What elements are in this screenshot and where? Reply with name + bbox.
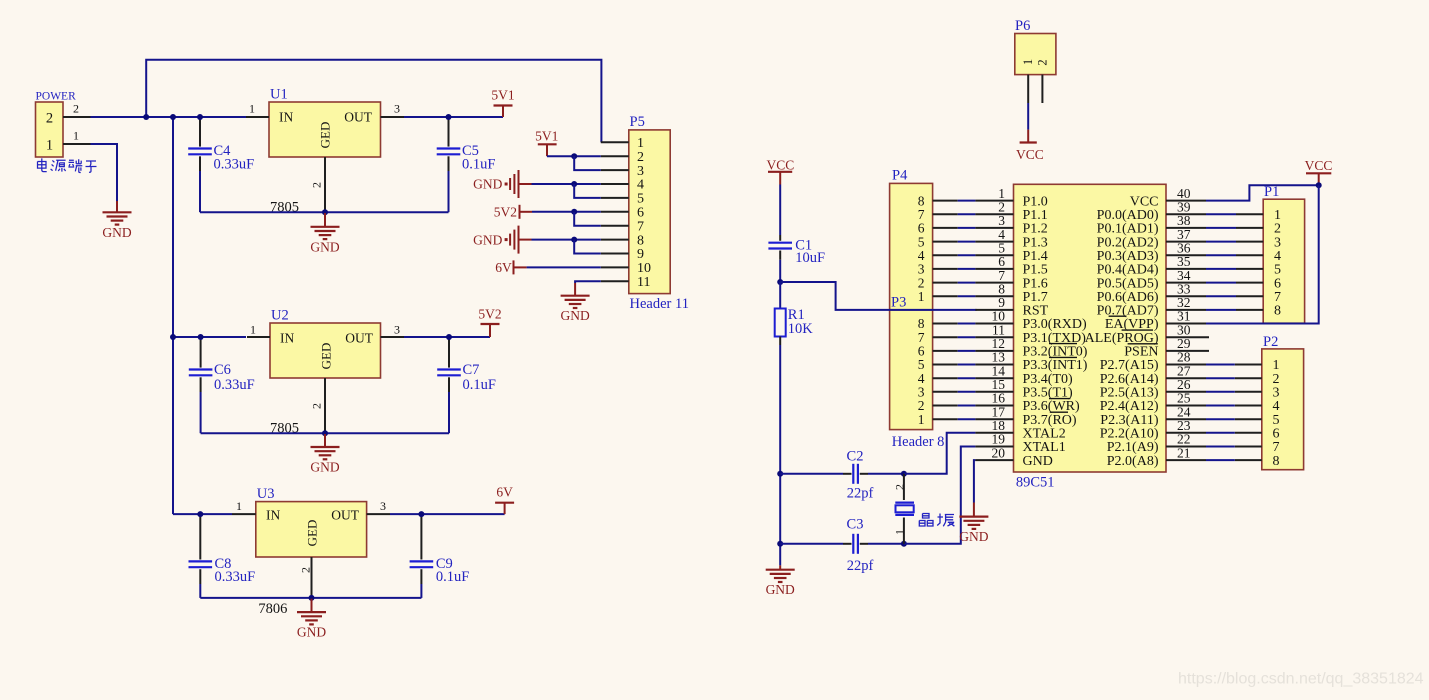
wire C2 to crystal	[868, 473, 904, 475]
svg-text:P4: P4	[892, 168, 908, 184]
svg-text:IN: IN	[266, 508, 280, 523]
svg-text:POWER: POWER	[36, 91, 77, 103]
junction	[170, 334, 176, 340]
pin 22 of 89C51 (P2.1(A9))	[1166, 446, 1206, 448]
svg-text:GND: GND	[560, 308, 589, 323]
svg-text:VCC: VCC	[1305, 158, 1333, 173]
svg-text:C3: C3	[847, 517, 864, 533]
junction	[901, 541, 907, 547]
svg-text:9: 9	[637, 247, 644, 262]
wire VCC to EA pin31	[1206, 185, 1319, 323]
pin 8 of P3	[933, 323, 958, 325]
svg-text:VCC: VCC	[1016, 147, 1044, 162]
svg-text:2: 2	[310, 182, 324, 188]
wire GND to P5 pin8	[532, 239, 601, 241]
wire left rail down to U2/U3	[172, 117, 174, 514]
pin 33 of 89C51 (P0.6(AD6))	[1166, 295, 1206, 297]
pin 2 of P1	[1236, 227, 1263, 229]
pin 4 of P2	[1235, 405, 1262, 407]
svg-text:Header 11: Header 11	[630, 296, 689, 312]
pin 35 of 89C51 (P0.4(AD4))	[1166, 268, 1206, 270]
wire GND to P5 pin4	[532, 183, 601, 185]
wire branch to P5 pin9	[574, 240, 601, 254]
capacitor C1	[779, 235, 781, 241]
svg-text:7: 7	[637, 219, 644, 234]
svg-text:C6: C6	[214, 362, 231, 378]
junction	[446, 114, 452, 120]
junction	[571, 181, 577, 187]
svg-text:0.33uF: 0.33uF	[214, 377, 255, 393]
svg-text:VCC: VCC	[767, 158, 795, 173]
overbar PSEN	[1128, 343, 1158, 345]
svg-text:C2: C2	[847, 448, 864, 464]
wire rail to U2 IN	[173, 336, 246, 338]
pin 10 of 89C51 (P3.0(RXD))	[975, 323, 1013, 325]
pin 1 of P1	[1236, 213, 1263, 215]
svg-text:1: 1	[46, 138, 53, 154]
pin 3 of U3	[367, 513, 390, 515]
wire P4 to 89C51	[958, 241, 976, 243]
capacitor C9	[420, 514, 422, 559]
wire 89C51 to P2	[1206, 459, 1235, 461]
wire pin40 VCC net	[1206, 185, 1319, 200]
svg-text:10uF: 10uF	[795, 250, 825, 266]
capacitor C3	[852, 534, 854, 554]
pin 5 of 89C51 (P1.4)	[975, 254, 1013, 256]
connector P6	[1015, 34, 1056, 75]
svg-text:GND: GND	[473, 177, 502, 192]
wire 89C51 to P1	[1206, 227, 1236, 229]
pin 2 of P4	[933, 282, 958, 284]
wire P3 to 89C51	[958, 377, 976, 379]
wire 89C51 to P1	[1206, 268, 1236, 270]
svg-text:OUT: OUT	[345, 331, 373, 346]
pin 30 of 89C51 (ALE(PROG))	[1166, 336, 1209, 338]
ground GND (left rail)	[779, 565, 781, 569]
connector POWER (电源端子)	[36, 102, 64, 157]
pin 37 of 89C51 (P0.2(AD2))	[1166, 241, 1206, 243]
svg-text:22pf: 22pf	[847, 486, 874, 502]
wire 89C51 to P2	[1206, 432, 1235, 434]
svg-text:GND: GND	[766, 582, 795, 597]
pin 40 of 89C51 (VCC)	[1166, 200, 1206, 202]
junction	[197, 511, 203, 517]
wire P3 to 89C51	[958, 391, 976, 393]
wire P3 to 89C51	[958, 350, 976, 352]
capacitor C5	[448, 117, 450, 147]
pin 2 of U1	[324, 157, 326, 212]
pin 3 of 89C51 (P1.2)	[975, 227, 1013, 229]
pin 13 of 89C51 (P3.3(INT1))	[975, 364, 1013, 366]
pin 1 of U3	[232, 513, 256, 515]
wire 89C51 to P1	[1206, 254, 1236, 256]
pin 7 of 89C51 (P1.6)	[975, 282, 1013, 284]
wire U2 OUT to 5V2	[404, 336, 490, 338]
pin 1 of POWER	[63, 143, 91, 145]
wire branch to P5 pin3	[574, 156, 601, 170]
svg-text:0.1uF: 0.1uF	[463, 377, 496, 393]
label 电源端子	[38, 158, 97, 172]
svg-text:4: 4	[637, 178, 644, 193]
svg-text:0.1uF: 0.1uF	[436, 569, 469, 585]
overbar INT0	[1049, 343, 1077, 345]
ground GND (U3)	[311, 599, 313, 612]
junction	[197, 114, 203, 120]
pin 19 of 89C51 (XTAL1)	[975, 446, 1013, 448]
junction	[143, 114, 149, 120]
connector P3 Header 8	[890, 310, 933, 430]
wire 89C51 to P2	[1206, 418, 1235, 420]
svg-text:C7: C7	[463, 362, 480, 378]
pin 3 of P2	[1235, 391, 1262, 393]
svg-text:7806: 7806	[258, 601, 287, 617]
svg-text:6V: 6V	[496, 485, 513, 500]
svg-text:GND: GND	[959, 529, 988, 544]
svg-text:5V2: 5V2	[494, 205, 517, 220]
svg-text:GED: GED	[304, 520, 319, 547]
pin 3 of P3	[933, 391, 958, 393]
wire P3 to 89C51	[958, 336, 976, 338]
svg-text:0.1uF: 0.1uF	[462, 157, 495, 173]
power port 5V2	[489, 324, 491, 337]
pin 1 of P6	[1027, 75, 1029, 103]
pin 8 of P1	[1236, 309, 1263, 311]
wire 5V2 to P5 pin6	[532, 211, 601, 213]
svg-text:U3: U3	[257, 486, 275, 502]
pin 6 of P5	[601, 211, 629, 213]
junction	[170, 114, 176, 120]
pin 15 of 89C51 (P3.5(T1))	[975, 391, 1013, 393]
pin 4 of 89C51 (P1.3)	[975, 241, 1013, 243]
pin 2 of P6	[1041, 75, 1043, 103]
pin 1 of U2	[247, 336, 270, 338]
junction	[777, 471, 783, 477]
svg-text:22pf: 22pf	[847, 558, 874, 574]
pin 4 of P4	[933, 254, 958, 256]
pin 28 of 89C51 (P2.7(A15))	[1166, 364, 1206, 366]
svg-text:1: 1	[918, 412, 925, 427]
svg-text:2: 2	[1035, 59, 1049, 65]
pin 16 of 89C51 (P3.6(WR))	[975, 405, 1013, 407]
wire U1 OUT to 5V1	[404, 116, 503, 118]
pin 2 of P2	[1235, 377, 1262, 379]
svg-text:1: 1	[236, 499, 242, 513]
wire P4 to 89C51	[958, 213, 976, 215]
pin 1 of P5	[601, 141, 629, 143]
wire U3 OUT to 6V	[390, 513, 505, 515]
capacitor C4	[199, 117, 201, 147]
wire P4 to 89C51	[958, 282, 976, 284]
wire VCC rail to RST pin9 (over header border)	[780, 282, 976, 310]
wire top feed to P5 pin1	[146, 60, 601, 143]
svg-text:3: 3	[637, 164, 644, 179]
wire U2 bottom net	[201, 432, 449, 434]
pin 2 of U2	[324, 378, 326, 433]
pin 4 of P3	[933, 377, 958, 379]
power port 5V1	[502, 106, 504, 118]
svg-text:6: 6	[637, 206, 644, 221]
wire branch to P5 pin7	[574, 212, 601, 226]
wire P4 to 89C51	[958, 254, 976, 256]
svg-text:GND: GND	[310, 239, 339, 254]
wire 89C51 to P1	[1206, 309, 1236, 311]
wire 89C51 to P1	[1206, 282, 1236, 284]
pin 20 of 89C51 (GND)	[975, 459, 1013, 461]
wire 89C51 to P1	[1206, 295, 1236, 297]
wire XTAL2 net (top)	[780, 473, 843, 475]
wire 89C51 to P2	[1206, 364, 1235, 366]
junction	[418, 511, 424, 517]
junction	[322, 430, 328, 436]
junction	[1316, 182, 1322, 188]
capacitor C2	[852, 464, 854, 484]
pin 2 of POWER	[63, 116, 91, 118]
pin 7 of P2	[1235, 446, 1262, 448]
wire R1 down the left rail	[779, 337, 781, 346]
svg-text:GND: GND	[310, 460, 339, 475]
connector P2	[1262, 349, 1304, 470]
wire U3 bottom net	[200, 597, 421, 599]
pin 5 of P5	[601, 197, 629, 199]
pin 2 of P3	[933, 405, 958, 407]
pin 6 of P3	[933, 350, 958, 352]
junction	[309, 595, 315, 601]
overbar EA	[1109, 315, 1127, 317]
pin 9 of 89C51 (RST)	[975, 309, 1013, 311]
pin 4 of P1	[1236, 254, 1263, 256]
svg-text:1: 1	[250, 323, 256, 337]
capacitor C8	[199, 514, 201, 559]
regulator U2 7805	[270, 323, 381, 378]
wire rail to U3 IN	[173, 513, 232, 515]
pin 2 of 89C51 (P1.1)	[975, 213, 1013, 215]
pin 1 of 89C51 (P1.0)	[975, 200, 1013, 202]
ground GND (POWER)	[116, 201, 118, 212]
svg-text:8: 8	[1273, 454, 1280, 469]
pin 3 of P1	[1236, 241, 1263, 243]
power port VCC (P6)	[1027, 130, 1029, 143]
pin 12 of 89C51 (P3.2(INT0))	[975, 350, 1013, 352]
svg-text:P5: P5	[630, 114, 645, 130]
svg-text:20: 20	[992, 445, 1006, 460]
junction	[901, 471, 907, 477]
svg-text:1: 1	[918, 289, 925, 304]
wire P5 pin11 to GND	[575, 281, 601, 283]
pin 2 of P5	[601, 155, 629, 157]
svg-text:5V2: 5V2	[478, 307, 501, 322]
pin 31 of 89C51 (EA(VPP))	[1166, 323, 1206, 325]
svg-text:2: 2	[73, 102, 79, 116]
pin 14 of 89C51 (P3.4(T0))	[975, 377, 1013, 379]
pin 4 of P5	[601, 183, 629, 185]
pin 7 of P1	[1236, 295, 1263, 297]
svg-text:U2: U2	[271, 308, 289, 324]
pin 18 of 89C51 (XTAL2)	[975, 432, 1013, 434]
pin 3 of U1	[381, 116, 405, 118]
junction	[571, 153, 577, 159]
connector P4 Header 8	[890, 183, 933, 310]
regulator U3 7806	[256, 502, 367, 557]
wire GND pin20	[974, 460, 976, 502]
wire POWER pin2 to U1 IN (net)	[91, 116, 247, 118]
label 晶振	[919, 514, 954, 527]
junction	[446, 334, 452, 340]
svg-text:1: 1	[249, 102, 255, 116]
pin 3 of P5	[601, 169, 629, 171]
pin 7 of P5	[601, 225, 629, 227]
pin 6 of P2	[1235, 432, 1262, 434]
regulator U1 7805	[269, 102, 381, 157]
svg-text:P3: P3	[891, 294, 906, 310]
svg-text:U1: U1	[270, 87, 288, 103]
wire U1 bottom net	[200, 211, 449, 213]
wire 6V to P5 pin10	[527, 266, 601, 268]
connector P5 Header 11	[629, 130, 670, 294]
wire 89C51 to P1	[1206, 241, 1236, 243]
ground GND (89C51)	[973, 503, 975, 517]
wire P3 to 89C51	[958, 418, 976, 420]
svg-text:10K: 10K	[788, 321, 814, 337]
svg-text:GND: GND	[1023, 454, 1053, 469]
svg-text:GED: GED	[319, 343, 334, 370]
svg-text:5: 5	[637, 192, 644, 207]
pin 1 of U1	[246, 116, 269, 118]
svg-text:GND: GND	[102, 225, 131, 240]
junction	[571, 209, 577, 215]
wire P4 to 89C51	[958, 227, 976, 229]
svg-text:2: 2	[299, 567, 313, 573]
pin 24 of 89C51 (P2.3(A11))	[1166, 418, 1206, 420]
pin 11 of 89C51 (P3.1(TXD))	[975, 336, 1013, 338]
pin 8 of P5	[601, 239, 629, 241]
pin 5 of P4	[933, 241, 958, 243]
overbar WR	[1049, 398, 1070, 400]
svg-text:https://blog.csdn.net/qq_38351: https://blog.csdn.net/qq_38351824	[1178, 671, 1424, 688]
wire 89C51 to P2	[1206, 446, 1235, 448]
wire P4 to 89C51	[958, 200, 976, 202]
pin 3 of P4	[933, 268, 958, 270]
pin 8 of P2	[1235, 459, 1262, 461]
svg-text:1: 1	[893, 529, 907, 535]
pin 39 of 89C51 (P0.0(AD0))	[1166, 213, 1206, 215]
svg-text:3: 3	[394, 323, 400, 337]
svg-text:1: 1	[73, 129, 79, 143]
wire P6 pin1 to VCC	[1027, 103, 1029, 130]
ground GND (P5)	[574, 283, 576, 296]
pin 8 of P4	[933, 200, 958, 202]
capacitor C7	[448, 337, 450, 368]
pin 6 of P1	[1236, 282, 1263, 284]
svg-text:6V: 6V	[495, 260, 512, 275]
pin 3 of U2	[381, 336, 405, 338]
pin 7 of P4	[933, 213, 958, 215]
pin 29 of 89C51 (PSEN)	[1166, 350, 1209, 352]
svg-text:GND: GND	[473, 232, 502, 247]
wire P4 to 89C51	[958, 268, 976, 270]
svg-text:IN: IN	[279, 110, 293, 125]
pin 6 of 89C51 (P1.5)	[975, 268, 1013, 270]
wire P4 to 89C51	[958, 295, 976, 297]
svg-text:GED: GED	[318, 122, 333, 149]
wire crystal top to XTAL2 pin18	[904, 433, 976, 474]
wire 89C51 to P2	[1206, 377, 1235, 379]
svg-text:2: 2	[893, 484, 907, 490]
pin 25 of 89C51 (P2.4(A12))	[1166, 405, 1206, 407]
pin 36 of 89C51 (P0.3(AD3))	[1166, 254, 1206, 256]
svg-text:IN: IN	[280, 331, 294, 346]
pin 38 of 89C51 (P0.1(AD1))	[1166, 227, 1206, 229]
pin 34 of 89C51 (P0.5(AD5))	[1166, 282, 1206, 284]
svg-text:3: 3	[394, 102, 400, 116]
pin 1 of P4	[933, 295, 958, 297]
wire 5V1 to P5 pin2	[547, 155, 601, 157]
pin 23 of 89C51 (P2.2(A10))	[1166, 432, 1206, 434]
pin 2 of U3	[311, 557, 313, 598]
svg-text:GND: GND	[297, 625, 326, 640]
wire branch to P5 pin5	[574, 184, 601, 198]
svg-text:89C51: 89C51	[1016, 474, 1055, 490]
ground GND (U2)	[324, 434, 326, 447]
power port 6V	[504, 503, 506, 514]
svg-text:0.33uF: 0.33uF	[215, 569, 256, 585]
wire P3 to 89C51	[958, 323, 976, 325]
pin 8 of 89C51 (P1.7)	[975, 295, 1013, 297]
resistor R1	[779, 282, 781, 309]
pin 26 of 89C51 (P2.5(A13))	[1166, 391, 1206, 393]
junction	[777, 541, 783, 547]
pin 1 of P3	[933, 418, 958, 420]
junction	[198, 334, 204, 340]
pin 10 of P5	[601, 266, 629, 268]
ground GND (U1)	[324, 213, 326, 227]
pin 7 of P3	[933, 336, 958, 338]
capacitor C6	[200, 337, 202, 368]
wire XTAL1 net (bottom)	[780, 543, 843, 545]
wire 89C51 to P2	[1206, 405, 1235, 407]
svg-text:1: 1	[1021, 59, 1035, 65]
junction	[777, 279, 783, 285]
wire POWER pin1 to GND	[91, 144, 118, 201]
svg-text:0.33uF: 0.33uF	[214, 157, 255, 173]
wire 89C51 to P2	[1206, 391, 1235, 393]
pin 5 of P3	[933, 364, 958, 366]
wire P3 to 89C51	[958, 364, 976, 366]
junction	[571, 237, 577, 243]
svg-text:2: 2	[46, 110, 53, 126]
overbar INT1	[1049, 356, 1077, 358]
svg-text:OUT: OUT	[331, 508, 359, 523]
wire VCC to C1	[779, 185, 781, 236]
wire P3 to 89C51	[958, 405, 976, 407]
pin 17 of 89C51 (P3.7(RO))	[975, 418, 1013, 420]
connector P1	[1263, 199, 1304, 323]
overbar PROG	[1122, 329, 1153, 331]
svg-text:3: 3	[380, 499, 386, 513]
pin 27 of 89C51 (P2.6(A14))	[1166, 377, 1206, 379]
svg-text:OUT: OUT	[344, 110, 372, 125]
pin 1 of P2	[1235, 364, 1262, 366]
svg-text:2: 2	[310, 403, 324, 409]
junction	[322, 209, 328, 215]
pin 11 of P5	[601, 280, 629, 282]
svg-text:10: 10	[637, 261, 651, 276]
svg-text:P2.0(A8): P2.0(A8)	[1107, 454, 1159, 469]
pin 32 of 89C51 (P0.7(AD7))	[1166, 309, 1206, 311]
svg-text:5V1: 5V1	[535, 129, 558, 144]
pin 6 of P4	[933, 227, 958, 229]
crystal Y? 晶振	[903, 474, 905, 500]
svg-text:21: 21	[1177, 445, 1191, 460]
